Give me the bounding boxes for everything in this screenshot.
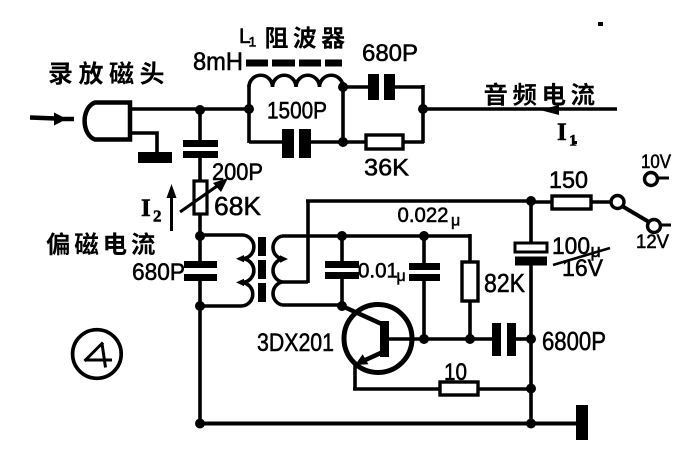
svg-text:16V: 16V — [562, 255, 603, 282]
wire rail corner to 82K — [468, 234, 470, 263]
label 100μ 16V — [552, 233, 610, 282]
svg-text:68K: 68K — [214, 191, 262, 221]
node G base junction — [419, 334, 429, 344]
node N junction — [418, 104, 428, 114]
transformer T1 primary winding (left) — [200, 235, 254, 306]
wire 0.01 to collector node — [340, 278, 344, 307]
node B junction (transformer top-left) — [195, 231, 205, 241]
ground rail wire — [199, 422, 578, 426]
node H base junction — [465, 334, 475, 344]
resistor 36K — [366, 135, 403, 149]
wire R-150 to switch — [591, 200, 611, 204]
transistor base bar — [380, 321, 389, 357]
label 录放磁头 (record/play head) — [49, 61, 163, 85]
resistor 10 — [440, 382, 478, 395]
label 36K — [364, 155, 410, 182]
resistor 150 — [552, 196, 591, 209]
label 0.01μ — [358, 259, 406, 286]
svg-text:6800P: 6800P — [542, 328, 606, 356]
svg-text:I: I — [141, 195, 151, 222]
svg-text:10V: 10V — [641, 152, 671, 173]
head ground stub wire — [130, 133, 157, 152]
label 10V — [641, 152, 671, 173]
svg-text:8mH: 8mH — [193, 48, 243, 76]
wire R-10 to supply line — [478, 387, 532, 391]
label 68K — [214, 191, 262, 221]
capacitor 0.022μ — [409, 263, 440, 281]
node K junction (main wire to tank) — [244, 104, 254, 114]
emitter lead with arrow — [355, 351, 385, 365]
label 680P (tank cap) — [132, 259, 185, 286]
wire 68K to node B — [198, 214, 202, 237]
wire 82K to base line — [468, 301, 472, 340]
svg-text:12V: 12V — [636, 232, 669, 253]
node F junction — [419, 231, 429, 241]
resistor 82K — [462, 262, 478, 301]
ground (head) — [138, 152, 172, 163]
svg-text:μ: μ — [397, 268, 406, 285]
svg-text:1: 1 — [249, 34, 257, 50]
wire node D to C-0.01 — [340, 235, 344, 262]
wire node C down to ground rail — [198, 305, 202, 425]
label 82K — [484, 268, 526, 298]
svg-text:0.01: 0.01 — [358, 259, 398, 283]
wire audio output — [423, 107, 617, 111]
label 1500P — [267, 98, 327, 125]
svg-text:680P: 680P — [362, 40, 418, 67]
node P supply junction — [526, 196, 536, 206]
scan speck marks — [573, 22, 603, 144]
emitter wire to R-10 — [353, 387, 441, 391]
capacitor 200P — [183, 140, 218, 158]
switch arm — [622, 206, 649, 222]
emitter wire down — [353, 363, 357, 389]
svg-text:1500P: 1500P — [267, 98, 327, 125]
svg-text:150: 150 — [549, 167, 588, 194]
terminal 12V contact — [648, 220, 672, 233]
wire tap up to supply rail — [306, 200, 310, 283]
node M junction — [338, 137, 348, 147]
label 150 — [549, 167, 588, 194]
collector lead — [342, 306, 384, 325]
tank right side wire — [341, 85, 345, 143]
svg-text:36K: 36K — [364, 155, 410, 182]
label 6800P — [542, 328, 606, 356]
node D junction — [337, 231, 347, 241]
wire 680P to node C — [198, 280, 202, 307]
wire supply rail top — [306, 199, 531, 203]
wire node B to C-680P — [198, 235, 202, 262]
wire head to node A — [130, 107, 251, 111]
audio current arrow (left) — [540, 105, 559, 115]
magnetic head RP (record/play head symbol) — [85, 103, 130, 140]
capacitor 0.01μ — [325, 261, 359, 279]
node E collector junction — [337, 301, 347, 311]
tank left side wire — [247, 85, 251, 143]
wire node F to C-0.022 — [422, 235, 426, 263]
node R junction — [526, 419, 536, 429]
wire tank to C-680P — [343, 85, 369, 89]
wire tank to R-36K — [343, 140, 367, 144]
capacitor 680P (trap) — [368, 74, 395, 100]
capacitor 100μ/16V electrolytic — [515, 243, 547, 266]
node L junction — [338, 82, 348, 92]
label 680P (trap) — [362, 40, 418, 67]
label I2 bias current — [141, 195, 162, 226]
wire node A down to C-200P — [198, 109, 202, 141]
wire 200P to R-68K — [198, 158, 202, 183]
label 偏磁电流 (bias current) — [46, 232, 154, 255]
input signal arrow — [30, 113, 74, 126]
figure number 4 (circled) — [73, 330, 122, 379]
svg-text:I: I — [557, 119, 567, 146]
svg-text:82K: 82K — [484, 268, 526, 298]
label L1 阻波器 (wave trap) — [239, 25, 345, 50]
svg-text:0.022: 0.022 — [398, 204, 449, 227]
wire 680P to node N — [394, 85, 424, 110]
label I1 — [557, 119, 577, 150]
label 音频电流 (audio current) — [485, 82, 595, 105]
wire 0.022 to base line — [422, 280, 426, 340]
transformer T1 secondary winding (right, tapped) — [273, 236, 344, 305]
svg-text:3DX201: 3DX201 — [257, 329, 334, 357]
inductor L1 core (dashed) — [246, 60, 342, 67]
node Q junction — [195, 419, 205, 429]
label 12V — [636, 232, 669, 253]
wire 36K to node N — [402, 108, 424, 143]
label 8mH — [193, 48, 243, 76]
wire supply line down (upper) — [529, 200, 533, 244]
transistor V 3DX201 body — [344, 305, 412, 373]
node J junction — [526, 384, 536, 394]
svg-text:2: 2 — [153, 207, 162, 226]
resistor 68K (adjustable) — [194, 181, 207, 214]
label 0.022μ — [398, 204, 461, 230]
transformer T1 core — [258, 237, 266, 302]
label 3DX201 — [257, 329, 334, 357]
adjust arrow through 68K — [180, 178, 228, 212]
svg-text:680P: 680P — [132, 259, 185, 286]
wire supply to R-150 — [531, 200, 553, 204]
capacitor 680P (tank) — [184, 261, 217, 281]
tank bottom wires — [249, 140, 344, 144]
node C junction (transformer bottom-left) — [195, 301, 205, 311]
wire 6800P to supply line — [516, 337, 532, 341]
I2 direction arrow (up) — [167, 184, 177, 231]
node I junction — [526, 334, 536, 344]
terminal 10V contact — [645, 173, 670, 186]
inductor L1 8mH winding — [249, 75, 343, 87]
label 10 (emitter resistor) — [444, 359, 467, 386]
wire supply line down (lower) — [529, 265, 533, 425]
svg-text:μ: μ — [451, 213, 460, 230]
base line wire — [389, 337, 494, 341]
switch S common contact — [611, 196, 624, 209]
capacitor 6800P — [492, 323, 516, 356]
capacitor 1500P — [282, 129, 311, 158]
label 200P — [212, 159, 263, 186]
node A junction — [195, 105, 205, 115]
wire base-feed rail — [282, 234, 470, 238]
ground (main) — [576, 405, 588, 440]
